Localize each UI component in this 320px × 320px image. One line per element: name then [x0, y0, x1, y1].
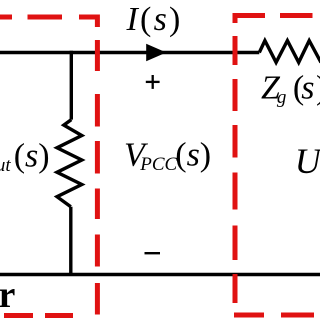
resistor Zg zigzag (horizontal, grid impedance) [259, 41, 320, 63]
wire: right box left edge dash 2 [233, 79, 238, 111]
wire: left box right edge dash 3 [95, 141, 100, 174]
wire: left box right edge dash 2 [95, 94, 100, 127]
wire: left box right edge dash 5 [95, 235, 100, 267]
label + (VPCC polarity plus) [146, 75, 160, 89]
wire: top horizontal (node PCC feed) [0, 51, 259, 54]
wire: left box top edge dash 2 [28, 15, 63, 20]
wire: right box left edge dash 4 [233, 173, 238, 210]
wire: left box right edge dash 4 [95, 189, 100, 220]
inverter dashed box (left, red) [0, 17, 97, 316]
wire: left box right edge dash 1 [95, 40, 100, 71]
wire: left box bottom edge dash 2 [45, 313, 73, 318]
wire: right box top edge dash 2 [280, 13, 313, 18]
wire: right box bottom edge dash 1 [234, 313, 264, 318]
wire: left box bottom edge dash 1 [4, 313, 33, 318]
wire: right box left edge dash 3 [233, 125, 238, 158]
circuit black wires [0, 41, 320, 276]
wire: left box right edge dash 6 [95, 283, 100, 315]
resistor Zout zigzag (vertical, inverter output impedance) [57, 120, 82, 207]
grid dashed box (right, red) [234, 16, 314, 316]
wire: vertical drop to Zout [70, 51, 73, 120]
wire: right box left edge dash 6 [233, 274, 238, 303]
svg-text:r: r [0, 274, 16, 316]
wire: left box top-right corner L [79, 17, 97, 27]
svg-text:U: U [295, 141, 320, 181]
wire: vertical from Zout to bottom rail [69, 207, 72, 276]
label minus (VPCC polarity) [145, 252, 161, 254]
wire: bottom return rail [0, 273, 320, 276]
wire: right box top-left corner L [235, 16, 265, 24]
wire: right box bottom edge dash 2 [281, 313, 314, 318]
wire: left box top edge dash 1 [0, 15, 12, 20]
svg-text:I(s): I(s) [126, 1, 183, 38]
wire: right box left edge dash 5 [233, 226, 238, 261]
wire: right box left edge dash 1 [233, 36, 238, 65]
current arrow I(s) on top wire [146, 44, 166, 61]
